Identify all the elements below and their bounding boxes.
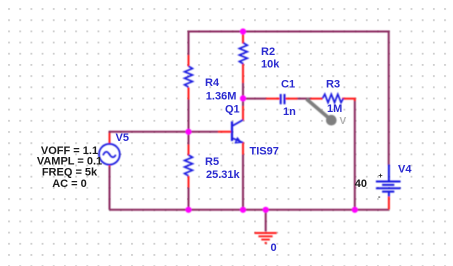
resistor R5 pins (188, 145, 190, 188)
svg-text:V: V (340, 116, 347, 127)
wire node to R5 top (188, 132, 190, 145)
wire R4 bottom to base node (188, 99, 190, 132)
wire base node to V5 top (110, 131, 189, 133)
node junction base / R4 / R5 / V5 (185, 129, 191, 135)
resistor R5 body (185, 155, 193, 176)
svg-text:1M: 1M (327, 103, 342, 115)
resistor R3 body (323, 94, 344, 102)
wire V5 bottom to bottom rail (109, 166, 111, 210)
resistor R3 pins (311, 99, 355, 101)
svg-text:R5: R5 (205, 156, 219, 168)
wire R5 bottom to bottom rail (188, 187, 190, 210)
wire collector node to C1 (243, 98, 266, 100)
svg-text:FREQ = 5k: FREQ = 5k (42, 166, 98, 178)
wire bottom rail (110, 209, 389, 211)
svg-text:+: + (378, 171, 383, 180)
node junction bottom rail / emitter (240, 207, 246, 213)
svg-text:AC = 0: AC = 0 (52, 178, 87, 190)
ground 0 symbol (255, 233, 277, 243)
svg-text:1n: 1n (283, 106, 296, 118)
svg-text:10k: 10k (261, 59, 280, 71)
wire base node to Q1 base (189, 131, 219, 133)
wire ground stem (265, 210, 267, 232)
svg-text:40: 40 (355, 178, 367, 190)
node junction collector / R2 / C1 (240, 95, 246, 101)
svg-text:V5: V5 (116, 132, 129, 144)
resistor R4 pins (188, 55, 190, 100)
source V5 pins (109, 133, 111, 167)
battery V4 bottom pin (388, 197, 390, 210)
wire left vertical above R4 (188, 31, 190, 57)
source V5 sine (103, 152, 116, 157)
wire R2 bottom to collector node (242, 83, 244, 99)
svg-text:R4: R4 (205, 77, 220, 89)
wire top rail (189, 31, 389, 33)
capacitor C1 pins (266, 98, 298, 100)
capacitor C1 plates (281, 94, 285, 104)
svg-text:R3: R3 (326, 78, 340, 90)
probe needle (307, 99, 331, 120)
svg-text:0: 0 (271, 242, 277, 254)
wire collector node down (242, 98, 244, 106)
battery V4 bottom stub (388, 192, 390, 197)
transistor Q1 body (232, 120, 243, 143)
resistor R4 body (185, 66, 193, 87)
svg-text:C1: C1 (281, 78, 295, 90)
transistor Q1 pins (218, 106, 243, 155)
battery V4 top pin (388, 165, 390, 182)
svg-text:TIS97: TIS97 (250, 145, 279, 157)
svg-text:V4: V4 (398, 164, 412, 176)
probe tip circle (326, 115, 337, 126)
wire C1 to R3 (probe node) (297, 98, 311, 100)
svg-text:Q1: Q1 (225, 104, 240, 116)
resistor R2 pins (242, 32, 244, 84)
node junction bottom rail / R5 (185, 207, 191, 213)
wire right vertical to V4 (388, 31, 390, 166)
svg-text:1.36M: 1.36M (206, 90, 237, 102)
node junction bottom rail / R3 branch (352, 207, 358, 213)
svg-text:25.31k: 25.31k (206, 169, 241, 181)
node junction top rail / R2 (240, 28, 246, 34)
wire V5 top corner (109, 131, 111, 135)
wire emitter to bottom rail (242, 154, 244, 210)
battery V4 plates (376, 182, 401, 192)
wire R3 right down to bottom rail (354, 100, 356, 210)
source V5 body (99, 144, 120, 165)
resistor R2 body (239, 43, 247, 64)
node junction bottom rail / ground (263, 207, 269, 213)
svg-text:R2: R2 (261, 46, 275, 58)
